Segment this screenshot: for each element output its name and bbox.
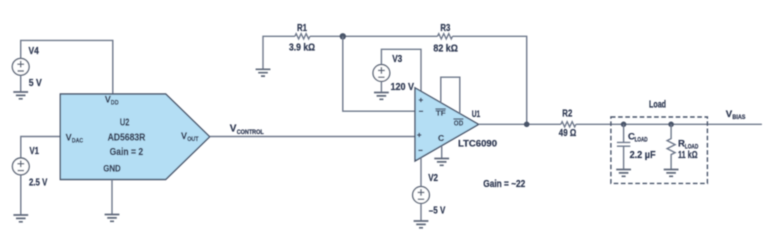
ground at R1 left: [256, 69, 271, 76]
ground below V3: [374, 93, 389, 100]
wire V4 to ground: [20, 75, 22, 92]
svg-text:V2: V2: [428, 173, 438, 184]
svg-text:Load: Load: [649, 100, 666, 111]
wire op-amp V- to V2: [420, 157, 422, 186]
node CLOAD top: [621, 122, 627, 128]
svg-text:2.2 µF: 2.2 µF: [630, 150, 656, 161]
ground below V1: [13, 215, 28, 222]
svg-text:5 V: 5 V: [29, 78, 42, 89]
node output junction: [524, 122, 530, 128]
svg-text:OUT: OUT: [187, 137, 199, 143]
node RLOAD top: [668, 122, 674, 128]
wire TF to OD loop: [441, 77, 460, 114]
svg-text:CONTROL: CONTROL: [237, 130, 264, 136]
svg-text:11 kΩ: 11 kΩ: [678, 150, 698, 161]
wire V1 to ground: [20, 175, 22, 215]
wire op-amp output to R2: [479, 123, 561, 125]
supply + mark: [419, 98, 423, 102]
svg-text:120 V: 120 V: [391, 82, 415, 93]
svg-text:Gain = ~22: Gain = ~22: [483, 179, 525, 190]
voltage source V3: [373, 65, 390, 82]
wire V3 to ground: [380, 81, 382, 92]
svg-text:U2: U2: [120, 117, 130, 128]
load box dashed outline: [611, 117, 708, 183]
svg-text:V: V: [66, 133, 72, 143]
svg-text:R2: R2: [562, 108, 572, 119]
voltage source V4: [12, 58, 29, 75]
svg-text:82 kΩ: 82 kΩ: [433, 44, 458, 55]
svg-text:DAC: DAC: [72, 139, 84, 145]
resistor R1: [295, 34, 310, 39]
node junction R1/R3: [340, 33, 346, 39]
wire U2 GND to ground: [111, 180, 113, 215]
svg-text:V3: V3: [392, 54, 402, 65]
svg-text:V1: V1: [30, 146, 40, 157]
svg-text:2.5 V: 2.5 V: [29, 178, 48, 189]
wire R3 to output node: [453, 36, 527, 124]
svg-text:V4: V4: [29, 46, 40, 57]
svg-text:49 Ω: 49 Ω: [559, 128, 577, 139]
svg-text:TF: TF: [436, 109, 446, 118]
svg-text:Gain = 2: Gain = 2: [110, 147, 144, 158]
svg-text:U1: U1: [472, 109, 481, 119]
svg-text:OD: OD: [454, 119, 464, 128]
resistor RLOAD: [667, 124, 675, 169]
wire U2 VOUT to op-amp +IN (VCONTROL net): [210, 136, 415, 138]
inverting input - mark: [419, 110, 423, 112]
ground below U2: [105, 215, 120, 222]
op-amp U1 body: [415, 88, 479, 161]
svg-text:GND: GND: [103, 164, 121, 174]
wire junction to op-amp -IN: [343, 36, 415, 111]
svg-text:LOAD: LOAD: [635, 137, 649, 143]
supply - mark: [418, 149, 422, 151]
wire V3 to op-amp V+: [381, 49, 421, 91]
ground at C pin: [434, 159, 449, 166]
svg-text:R1: R1: [297, 23, 307, 34]
ground below V2: [414, 221, 429, 228]
wire R2 to VBIAS: [576, 123, 762, 125]
ground below V4: [13, 92, 28, 99]
svg-text:AD5683R: AD5683R: [108, 132, 146, 143]
svg-text:DD: DD: [111, 100, 119, 106]
ground below CLOAD: [616, 170, 631, 177]
svg-text:–5 V: –5 V: [429, 205, 446, 216]
dac U2 AD5683R body: [60, 94, 209, 180]
wire R1 to R3: [310, 35, 438, 37]
resistor R2: [561, 122, 576, 127]
ground below RLOAD: [664, 170, 679, 177]
svg-text:C: C: [438, 133, 444, 143]
wire V2 to ground: [420, 203, 422, 221]
svg-text:BIAS: BIAS: [732, 115, 745, 121]
voltage source V1: [12, 158, 29, 175]
non-inverting input + mark: [417, 133, 421, 137]
svg-text:3.9 kΩ: 3.9 kΩ: [289, 42, 315, 53]
wire R1 left stub: [263, 36, 295, 69]
capacitor CLOAD: [617, 124, 630, 169]
voltage source V2: [413, 187, 430, 204]
svg-text:V: V: [181, 131, 187, 141]
wire V1 to U2 VDAC: [21, 137, 61, 159]
wire C pin to ground: [441, 146, 443, 159]
svg-text:R3: R3: [440, 23, 450, 34]
wire V4 to U2 VDD: [21, 40, 113, 94]
svg-text:LTC6090: LTC6090: [458, 137, 497, 148]
resistor R3: [438, 34, 453, 39]
